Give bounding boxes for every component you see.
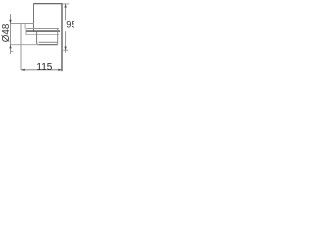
- dimension 48 top extension line: [10, 23, 34, 25]
- dimension 95 top arrow: [64, 4, 66, 8]
- node extension vertical at x21 (115 left extension): [20, 24, 22, 70]
- dimension 48 small tick: [11, 50, 14, 52]
- dimension 115 right arrow: [58, 69, 62, 71]
- wire collar lower grey line: [27, 28, 59, 30]
- wire cup front edge with rounded bottom corner: [37, 31, 39, 44]
- wire lip front edge: [25, 28, 27, 35]
- wire top edge of holder body: [33, 3, 62, 5]
- wire cup back edge: [57, 29, 59, 45]
- wire wall plate back edge: [61, 3, 63, 71]
- node short vertical at x25: [24, 24, 26, 29]
- dimension 95 line vertical: [65, 4, 67, 53]
- wire front vertical edge of holder body: [33, 4, 35, 32]
- wire cup outer bottom: [39, 44, 58, 46]
- svg-text:115: 115: [36, 62, 52, 73]
- label 95: [65, 20, 67, 31]
- svg-text:Ø48: Ø48: [1, 23, 12, 42]
- wire cup inner bottom line: [39, 41, 58, 43]
- dimension 95 bottom arrow: [64, 47, 66, 51]
- dimension 95 top extension line: [63, 3, 69, 5]
- dimension 48 top arrow: [9, 20, 11, 24]
- dimension 48 bottom arrow: [9, 45, 11, 49]
- dimension 95 bottom extension line: [63, 49, 68, 51]
- wire collar second grey line: [27, 34, 60, 36]
- svg-text:95: 95: [66, 20, 74, 30]
- dimension 115 left arrow: [21, 69, 25, 71]
- dimension 115 line: [21, 69, 62, 71]
- dimension 48 bottom extension line: [10, 44, 39, 46]
- dimension 48 line vertical: [10, 14, 12, 54]
- wire collar dark bottom line: [26, 30, 61, 32]
- background: [0, 0, 74, 74]
